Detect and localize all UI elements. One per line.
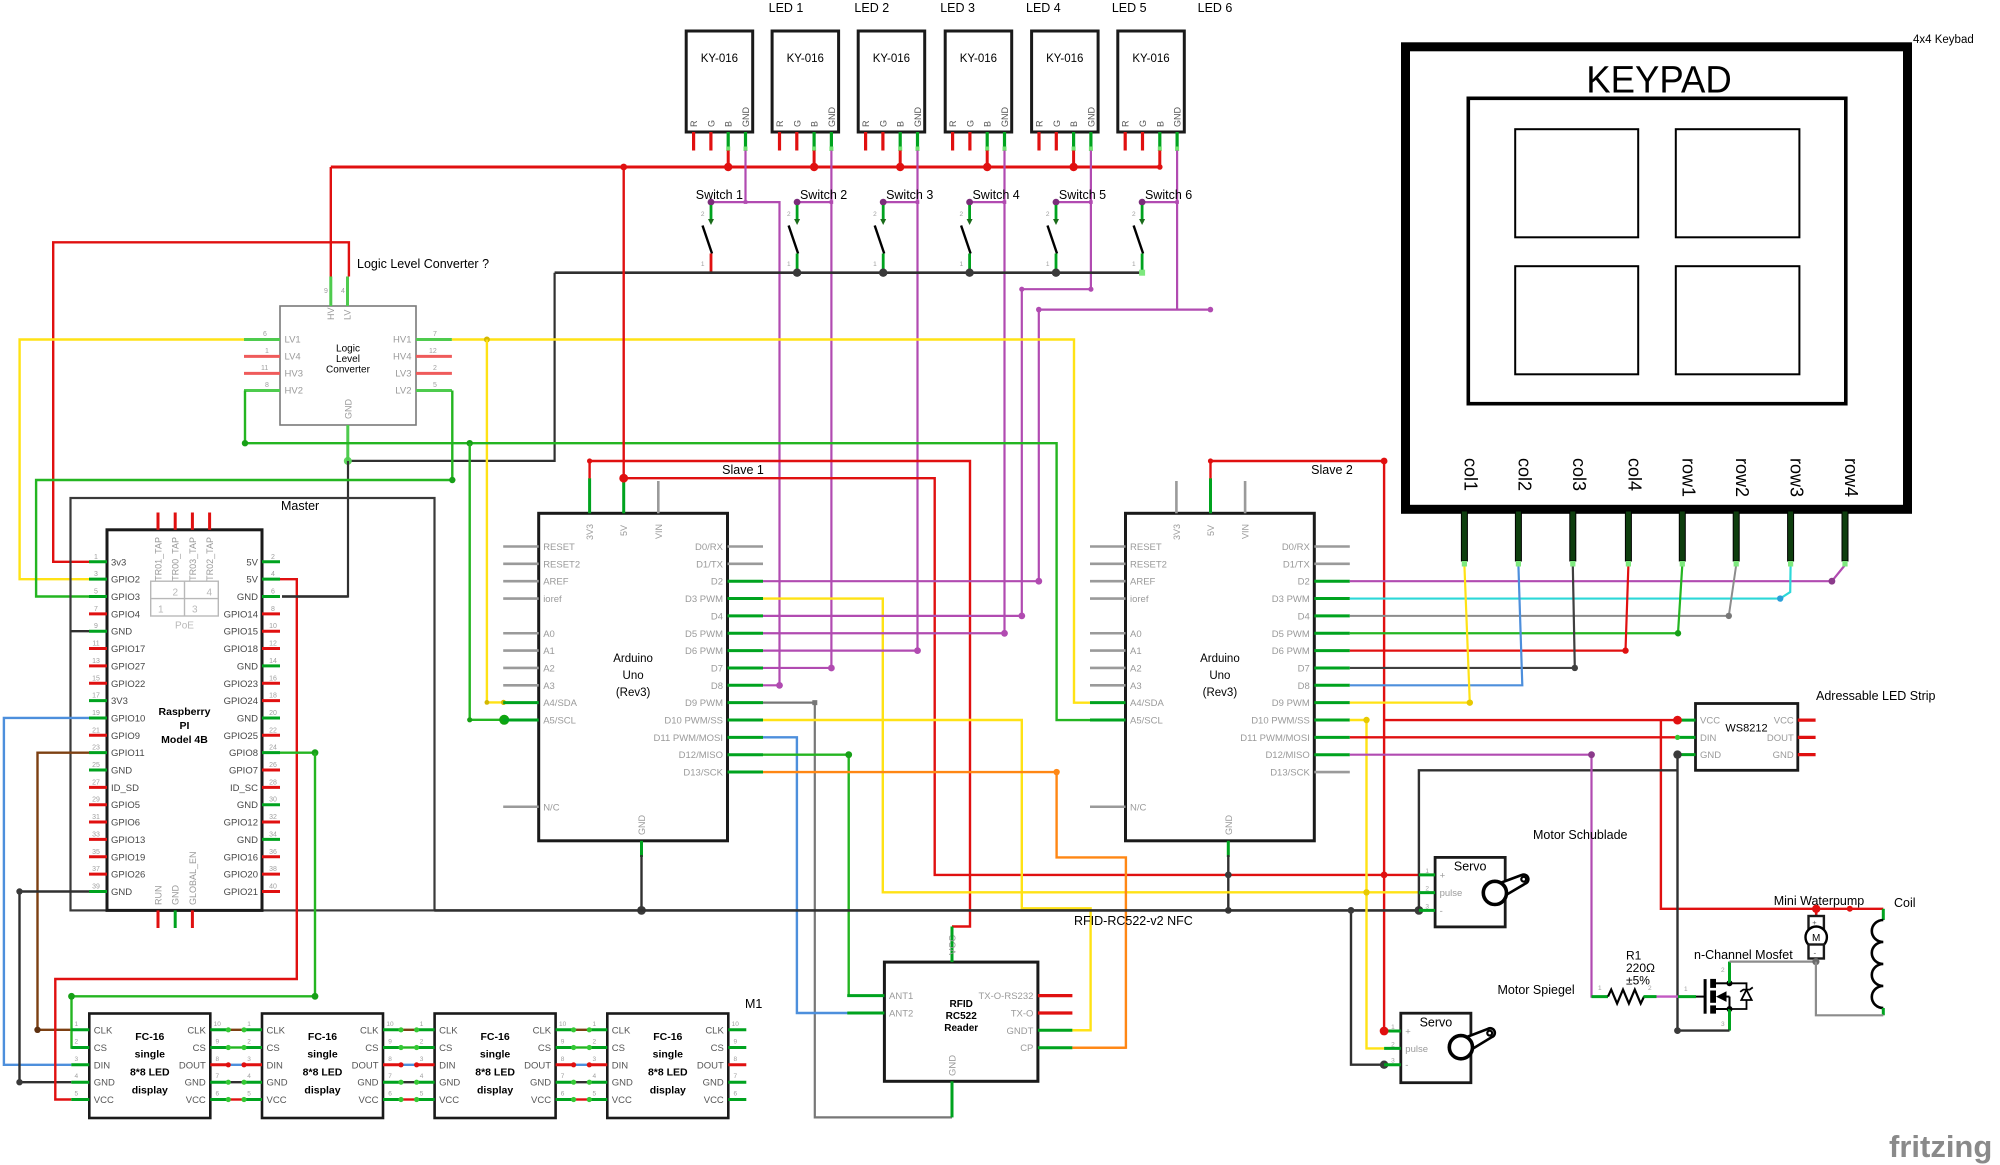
wire FC16 chain 2-3 pin 7 (401, 1081, 417, 1083)
svg-text:2: 2 (1425, 886, 1429, 893)
wire yellow SDA riser to Slave1 A4 (487, 340, 503, 703)
wire FC16 chain 1-2 pin 10 (228, 1029, 244, 1031)
wire black Pi GND9 to Master frame (71, 630, 90, 632)
svg-text:ioref: ioref (543, 594, 562, 605)
svg-text:GND: GND (237, 713, 258, 724)
svg-text:-: - (1440, 906, 1443, 917)
svg-text:KY-016: KY-016 (701, 53, 738, 65)
svg-text:GND: GND (237, 800, 258, 811)
svg-text:29: 29 (92, 797, 100, 804)
svg-text:DIN: DIN (1700, 733, 1717, 744)
svg-text:26: 26 (269, 762, 277, 769)
svg-text:single: single (653, 1049, 684, 1061)
wire green SCL Pi GPIO3 to LV2 (36, 391, 452, 597)
junction orange D13 corner (1053, 769, 1059, 775)
wire black ground branch to Servo2 minus (1351, 910, 1384, 1064)
svg-text:LV1: LV1 (285, 335, 301, 346)
svg-text:10: 10 (732, 1021, 740, 1028)
wire green Pi GPIO8 to FC16 CS (280, 752, 315, 754)
svg-text:6: 6 (263, 331, 267, 338)
svg-text:VCC: VCC (612, 1095, 632, 1106)
svg-text:35: 35 (92, 849, 100, 856)
svg-text:TR00_TAP: TR00_TAP (171, 537, 181, 581)
svg-text:VCC: VCC (439, 1095, 459, 1106)
junction yellow SDA Slave1 riser (484, 337, 490, 343)
svg-text:10: 10 (214, 1021, 222, 1028)
wire purple Slave1 D6 to switch3 net (763, 649, 918, 651)
svg-text:CLK: CLK (187, 1025, 206, 1036)
junction red bus to Slave1 5V riser (620, 164, 627, 171)
svg-text:Servo: Servo (1420, 1015, 1453, 1029)
svg-text:A0: A0 (543, 629, 555, 640)
svg-text:G: G (965, 120, 975, 127)
wire purple Slave2 D2 to keypad row4 (1350, 565, 1845, 581)
svg-text:Uno: Uno (1209, 670, 1230, 682)
svg-text:VCC: VCC (1774, 716, 1794, 727)
svg-text:CLK: CLK (705, 1025, 724, 1036)
junction green CS bus right (312, 993, 319, 1000)
svg-text:GPIO13: GPIO13 (111, 835, 145, 846)
svg-text:GPIO21: GPIO21 (224, 887, 258, 898)
svg-text:5V: 5V (246, 557, 258, 568)
svg-text:A1: A1 (1130, 646, 1142, 657)
junction black WS8212 GND (1673, 750, 1681, 758)
wire purple Switch2 top link (797, 201, 831, 203)
svg-text:3: 3 (94, 571, 98, 578)
svg-text:D9 PWM: D9 PWM (685, 698, 723, 709)
svg-text:1: 1 (787, 261, 791, 268)
svg-text:GND: GND (237, 835, 258, 846)
wire red 5V drop to Servo2 (1383, 461, 1385, 1031)
svg-text:D2: D2 (1298, 577, 1310, 588)
svg-text:GND: GND (111, 887, 132, 898)
transistor Q1 n-channel mosfet (1678, 962, 1753, 1031)
wire orange RFID CP link (1072, 1046, 1126, 1048)
svg-text:11: 11 (92, 641, 99, 648)
svg-text:34: 34 (269, 831, 277, 838)
svg-text:1: 1 (1425, 868, 1429, 875)
svg-text:GPIO7: GPIO7 (229, 766, 258, 777)
wire black node A to Pi GND6 (282, 461, 348, 597)
svg-text:single: single (480, 1049, 511, 1061)
svg-text:N/C: N/C (1130, 802, 1147, 813)
svg-text:1: 1 (1598, 985, 1602, 992)
wire yellow Slave1 D10 to RFID GNDT (763, 720, 1091, 1030)
svg-text:CLK: CLK (439, 1025, 458, 1036)
junction gray row2 (1726, 613, 1732, 619)
svg-text:2: 2 (271, 554, 275, 561)
wire gray mosfet drain to motor minus (1730, 960, 1816, 962)
svg-text:RFID-RC522-v2 NFC: RFID-RC522-v2 NFC (1074, 914, 1193, 928)
svg-text:col4: col4 (1624, 458, 1644, 491)
svg-text:RESET2: RESET2 (1130, 559, 1167, 570)
svg-text:Uno: Uno (623, 670, 644, 682)
junction gray motor minus node (1812, 958, 1819, 965)
servo M Spiegel (Servo 2) (1384, 1013, 1495, 1082)
wire gray Slave2 D4 to keypad row2 (1350, 565, 1736, 616)
wire FC16 chain 1-2 pin 6 (228, 1098, 244, 1100)
Arduino Uno (Rev3) Slave 2 (1090, 513, 1350, 857)
wire purple Switch1 to D8 riser (711, 202, 780, 685)
svg-text:6: 6 (561, 1091, 565, 1098)
svg-text:VCC: VCC (704, 1095, 724, 1106)
svg-text:+: + (1812, 918, 1817, 927)
svg-text:8*8 LED: 8*8 LED (303, 1067, 343, 1079)
svg-text:10: 10 (269, 623, 277, 630)
svg-text:col3: col3 (1569, 458, 1589, 491)
svg-text:B: B (896, 121, 906, 127)
svg-text:pulse: pulse (1405, 1044, 1428, 1055)
svg-text:Logic: Logic (336, 344, 360, 355)
svg-text:4: 4 (206, 588, 212, 599)
svg-text:GND: GND (1173, 107, 1183, 128)
FC-16 8x8 LED display module 3 (417, 1014, 574, 1119)
svg-text:5: 5 (592, 1091, 596, 1098)
servo M Schublade (Servo 1) (1419, 857, 1528, 927)
svg-text:B: B (1069, 121, 1079, 127)
svg-text:D5 PWM: D5 PWM (1272, 629, 1310, 640)
svg-text:Switch 3: Switch 3 (886, 188, 933, 202)
svg-text:D12/MISO: D12/MISO (679, 750, 723, 761)
KY-016 RGB LED module LED1 (686, 31, 753, 151)
svg-text:CLK: CLK (533, 1025, 552, 1036)
svg-text:VIN: VIN (1241, 524, 1251, 539)
svg-text:12: 12 (269, 641, 277, 648)
switch SW3 (Switch 3) (873, 199, 887, 273)
wire red waterpump feed (1661, 720, 1883, 909)
svg-text:D2: D2 (711, 577, 723, 588)
svg-text:FC-16: FC-16 (135, 1031, 164, 1043)
Arduino Uno (Rev3) Slave 1 (503, 513, 763, 857)
svg-text:DIN: DIN (267, 1060, 284, 1071)
wire black Slave2 GND drop (1227, 855, 1229, 910)
svg-text:PI: PI (180, 720, 190, 732)
wire purple Slave1 D8 to switch1 net (763, 684, 780, 686)
svg-text:GPIO27: GPIO27 (111, 661, 145, 672)
KY-016 RGB LED module LED2 (772, 31, 839, 151)
svg-text:7: 7 (733, 1073, 737, 1080)
motor M1 mini waterpump (1806, 910, 1827, 962)
svg-text:TR02_TAP: TR02_TAP (205, 537, 215, 581)
switch SW5 (Switch 5) (1046, 199, 1060, 273)
svg-text:2: 2 (1046, 211, 1050, 218)
junction green at Slave1 A5 (499, 715, 509, 725)
junction yellow at Slave2 D10 (1363, 717, 1369, 723)
resistor R1 220 ohm (1592, 949, 1657, 1004)
svg-text:D8: D8 (1298, 681, 1310, 692)
junction dark col3 (1572, 665, 1578, 671)
svg-text:1: 1 (420, 1021, 424, 1028)
svg-text:1: 1 (873, 261, 877, 268)
svg-text:3V3: 3V3 (585, 524, 595, 540)
KY-016 RGB LED module LED3 (858, 31, 925, 151)
wire red Pi 5V4 to FC16 VCC (55, 579, 296, 1099)
junction black servo1 minus (1415, 906, 1424, 915)
svg-text:8: 8 (561, 1056, 565, 1063)
svg-text:25: 25 (92, 762, 100, 769)
svg-text:D8: D8 (711, 681, 723, 692)
svg-text:7: 7 (94, 606, 98, 613)
svg-text:GND: GND (530, 1078, 551, 1089)
svg-text:GND: GND (1773, 750, 1794, 761)
svg-text:2: 2 (1132, 211, 1136, 218)
svg-text:WS8212: WS8212 (1725, 723, 1767, 735)
node A ground junction (344, 457, 352, 465)
svg-text:Switch 6: Switch 6 (1145, 188, 1192, 202)
svg-text:LV2: LV2 (395, 386, 411, 397)
svg-text:M: M (1812, 933, 1820, 944)
switch SW1 (Switch 1) (701, 199, 715, 273)
wire purple LED4 GND to D5 Slave1 (1003, 151, 1005, 634)
svg-text:7: 7 (388, 1073, 392, 1080)
frame Master group box (71, 498, 435, 910)
svg-text:D4: D4 (711, 611, 723, 622)
wire purple Slave1 D5 to switch4 net (763, 632, 1004, 634)
wire red Slave2 D11 to WS8212 DIN (1350, 736, 1678, 738)
junction green CS bus left (68, 993, 75, 1000)
svg-text:33: 33 (92, 831, 100, 838)
svg-text:DIN: DIN (612, 1060, 629, 1071)
junction red bus at LED2 (810, 163, 818, 171)
svg-text:LED 3: LED 3 (940, 1, 975, 15)
svg-text:TR01_TAP: TR01_TAP (154, 537, 164, 581)
wire purple LED6 GND drop (1176, 151, 1178, 310)
svg-text:A5/SCL: A5/SCL (543, 716, 576, 727)
junction black servo2 minus (1380, 1061, 1388, 1069)
svg-text:1: 1 (94, 554, 98, 561)
wire red LED supply bus (331, 166, 1160, 169)
svg-text:GPIO10: GPIO10 (111, 713, 145, 724)
svg-text:Slave 2: Slave 2 (1311, 463, 1353, 477)
svg-text:DOUT: DOUT (1767, 733, 1794, 744)
svg-text:2: 2 (701, 211, 705, 218)
svg-text:3v3: 3v3 (111, 557, 126, 568)
svg-text:GPIO18: GPIO18 (224, 644, 258, 655)
svg-text:38: 38 (269, 866, 277, 873)
svg-text:3: 3 (592, 1056, 596, 1063)
svg-text:GND: GND (111, 627, 132, 638)
svg-text:3V3: 3V3 (1172, 524, 1182, 540)
svg-text:col1: col1 (1460, 458, 1480, 491)
svg-text:Arduino: Arduino (1200, 653, 1240, 665)
svg-text:D7: D7 (711, 663, 723, 674)
switch SW4 (Switch 4) (959, 199, 973, 273)
wire gray Slave1 VIN stub (657, 481, 660, 513)
svg-text:8*8 LED: 8*8 LED (648, 1067, 688, 1079)
svg-text:D9 PWM: D9 PWM (1272, 698, 1310, 709)
svg-text:Motor Spiegel: Motor Spiegel (1498, 983, 1575, 997)
svg-text:TX-O: TX-O (1011, 1009, 1034, 1020)
svg-text:GND: GND (94, 1078, 115, 1089)
svg-text:6: 6 (271, 589, 275, 596)
svg-text:GND: GND (1000, 107, 1010, 128)
wire purple Slave1 D7 to switch2 net (763, 667, 831, 669)
svg-text:n-Channel Mosfet: n-Channel Mosfet (1694, 948, 1793, 962)
svg-text:(Rev3): (Rev3) (1203, 687, 1238, 699)
svg-text:8*8 LED: 8*8 LED (475, 1067, 515, 1079)
junction switch5 on ground bus (1052, 269, 1060, 277)
wire FC16 chain 2-3 pin 9 (401, 1046, 417, 1048)
wire FC16 chain 3-4 pin 6 (574, 1098, 590, 1100)
wire yellow Slave2 D10 riser to servo2 pulse (1350, 720, 1384, 1048)
svg-text:6: 6 (733, 1091, 737, 1098)
svg-text:7: 7 (215, 1073, 219, 1080)
KY-016 RGB LED module LED6 (1118, 31, 1185, 151)
svg-text:14: 14 (269, 658, 277, 665)
junction yellow col1 (1467, 699, 1473, 705)
junction red col4 (1622, 647, 1628, 653)
junction green WS8212 DIN (1675, 735, 1680, 740)
wire red Slave2 5V rail (1211, 461, 1385, 478)
svg-text:PoE: PoE (175, 621, 194, 632)
junction black GND39 corner (16, 888, 22, 894)
svg-text:5: 5 (247, 1091, 251, 1098)
wire blue Pi GPIO10 to FC16 DIN (4, 718, 89, 1065)
junction black at servo2 branch (1348, 907, 1355, 914)
svg-text:GPIO26: GPIO26 (111, 870, 145, 881)
svg-text:21: 21 (92, 727, 100, 734)
svg-text:GND: GND (343, 399, 353, 420)
wire FC16 chain 2-3 pin 10 (401, 1029, 417, 1031)
junction red WS8212 VCC (1673, 716, 1682, 725)
svg-text:GPIO6: GPIO6 (111, 818, 140, 829)
svg-text:CLK: CLK (360, 1025, 379, 1036)
svg-text:4: 4 (271, 571, 275, 578)
svg-text:A4/SDA: A4/SDA (543, 698, 577, 709)
wire black mosfet source to ground (1678, 1029, 1730, 1031)
svg-text:fritzing: fritzing (1889, 1129, 1992, 1164)
svg-text:display: display (477, 1085, 513, 1097)
junction purple at D6 Slave1 (914, 647, 921, 654)
KY-016 RGB LED module LED4 (945, 31, 1012, 151)
svg-text:3: 3 (1391, 1058, 1395, 1065)
svg-text:3: 3 (1425, 903, 1429, 910)
wire red Slave1 3V3 to RFID VCC (590, 461, 970, 927)
svg-text:1: 1 (1391, 1024, 1395, 1031)
svg-text:GND: GND (741, 107, 751, 128)
svg-text:11: 11 (261, 365, 268, 372)
svg-text:VCC: VCC (948, 935, 959, 955)
svg-text:display: display (650, 1085, 686, 1097)
junction green SCL at HV2 corner (242, 440, 248, 446)
svg-text:A2: A2 (1130, 663, 1142, 674)
wire FC16 chain 2-3 pin 6 (401, 1098, 417, 1100)
svg-text:AREF: AREF (1130, 577, 1156, 588)
svg-text:KY-016: KY-016 (1132, 53, 1169, 65)
svg-text:17: 17 (92, 693, 100, 700)
svg-text:D10 PWM/SS: D10 PWM/SS (1251, 716, 1310, 727)
svg-text:row1: row1 (1678, 458, 1698, 497)
svg-text:LV: LV (343, 310, 353, 320)
svg-text:Logic Level Converter ?: Logic Level Converter ? (357, 257, 489, 271)
svg-text:9: 9 (388, 1039, 392, 1046)
wire purple Slave1 D4 to switch5 net (763, 615, 1022, 617)
wire red LED5 B-pin drop (1072, 151, 1075, 169)
wire black main ground bus (434, 909, 1419, 912)
junction yellow pulse bus crossing (1363, 889, 1369, 895)
svg-text:4: 4 (247, 1073, 251, 1080)
junction green GPIO8 (312, 749, 319, 756)
svg-text:GPIO22: GPIO22 (111, 679, 145, 690)
svg-text:GPIO9: GPIO9 (111, 731, 140, 742)
4x4 keypad KEYPAD (1406, 47, 1908, 567)
svg-text:9: 9 (561, 1039, 565, 1046)
svg-text:7: 7 (561, 1073, 565, 1080)
KY-016 RGB LED module LED5 (1032, 31, 1099, 151)
wire red Slave1 5V to servo rail (624, 478, 1419, 875)
svg-text:5V: 5V (1206, 525, 1216, 536)
svg-text:CS: CS (711, 1043, 724, 1054)
svg-text:6: 6 (215, 1091, 219, 1098)
svg-text:display: display (304, 1085, 340, 1097)
svg-text:Master: Master (281, 499, 319, 513)
svg-text:CS: CS (193, 1043, 206, 1054)
svg-text:1: 1 (247, 1021, 251, 1028)
svg-text:-: - (1814, 949, 1817, 958)
junction red waterpump branch (1847, 906, 1853, 912)
svg-text:1: 1 (74, 1021, 78, 1028)
svg-text:row3: row3 (1787, 458, 1807, 497)
svg-text:A4/SDA: A4/SDA (1130, 698, 1164, 709)
svg-text:Motor Schublade: Motor Schublade (1533, 828, 1628, 842)
svg-text:LED 6: LED 6 (1198, 1, 1233, 15)
Raspberry Pi Model 4B (Master) (89, 513, 280, 929)
svg-text:LED 2: LED 2 (854, 1, 889, 15)
svg-text:HV2: HV2 (285, 386, 303, 397)
svg-text:GPIO4: GPIO4 (111, 609, 140, 620)
svg-text:GND: GND (827, 107, 837, 128)
svg-text:TR03_TAP: TR03_TAP (188, 537, 198, 581)
junction green D12 corner (845, 751, 852, 758)
junction switch2 on ground bus (793, 269, 801, 277)
svg-text:Switch 5: Switch 5 (1059, 188, 1106, 202)
svg-text:AREF: AREF (543, 577, 569, 588)
wire yellow Slave1 D3 to pulse bus (763, 599, 1419, 893)
svg-text:1: 1 (158, 605, 164, 616)
svg-text:10: 10 (559, 1021, 567, 1028)
junction green SCL Slave1 riser (467, 440, 473, 446)
wire yellow SDA HV1 bus to Slave2 A4 (452, 340, 1090, 703)
svg-text:R: R (689, 120, 699, 127)
svg-text:GPIO23: GPIO23 (224, 679, 258, 690)
svg-text:D4: D4 (1298, 611, 1310, 622)
svg-text:CLK: CLK (94, 1025, 113, 1036)
wire FC16 chain 1-2 pin 7 (228, 1081, 244, 1083)
svg-text:RESET: RESET (543, 542, 575, 553)
wire black ground bus riser to node A (348, 273, 555, 461)
svg-text:D1/TX: D1/TX (696, 559, 724, 570)
svg-text:single: single (307, 1049, 338, 1061)
switch SW2 (Switch 2) (787, 199, 801, 273)
junction red waterpump plus (1812, 905, 1820, 913)
svg-text:4: 4 (341, 288, 345, 295)
wire black switch ground bus (555, 271, 1143, 274)
junction switch4 on ground bus (965, 269, 973, 277)
svg-text:12: 12 (429, 348, 437, 355)
junction red Slave1 5V (619, 474, 628, 483)
svg-text:GPIO3: GPIO3 (111, 592, 140, 603)
svg-text:RESET2: RESET2 (543, 559, 580, 570)
svg-text:CS: CS (612, 1043, 625, 1054)
svg-text:VCC: VCC (267, 1095, 287, 1106)
wire yellow RFID GNDT link (1072, 1029, 1090, 1031)
wire black Pi GND6 link (282, 595, 348, 597)
junction switch3 on ground bus (879, 269, 887, 277)
svg-text:16: 16 (269, 675, 277, 682)
svg-text:7: 7 (433, 331, 437, 338)
svg-text:Converter: Converter (326, 365, 371, 376)
svg-text:2: 2 (787, 211, 791, 218)
